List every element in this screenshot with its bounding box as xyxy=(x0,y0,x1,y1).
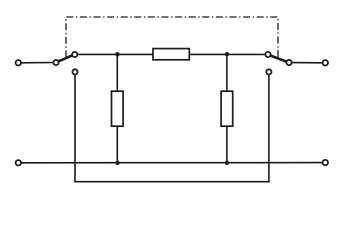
junction dot: R3 bottom node xyxy=(225,161,230,166)
switch S1 blade xyxy=(59,55,73,61)
wire: right shunt top lead xyxy=(226,54,228,91)
switch S2 lower throw contact xyxy=(266,69,271,74)
mechanical linkage dash-dot line xyxy=(66,17,278,58)
wire: S2 lower throw down lead xyxy=(268,75,270,182)
junction dot: R2 top node xyxy=(115,52,120,57)
switch S2 blade xyxy=(271,56,287,62)
terminal In+ xyxy=(16,60,21,65)
resistor R1 (series) xyxy=(153,49,189,60)
wire: lower bypass link xyxy=(74,181,270,183)
wire: left input terminal to switch S1 pole xyxy=(21,62,53,64)
switch S2 upper throw contact xyxy=(265,52,270,57)
resistor R3 (right shunt) xyxy=(221,91,233,126)
wire: S1 throw to series resistor R1 xyxy=(77,53,153,55)
wire: R1 to switch S2 throw xyxy=(189,53,265,55)
terminal Out- xyxy=(323,160,328,165)
resistor R2 (left shunt) xyxy=(112,91,124,126)
switch S1 upper throw contact xyxy=(72,52,77,57)
wire: S1 lower throw down lead xyxy=(74,75,76,182)
junction dot: R2 bottom node xyxy=(115,161,120,166)
switch S1 lower throw contact xyxy=(72,69,77,74)
wire: left shunt bottom lead xyxy=(116,126,118,163)
switch S1 pole contact xyxy=(53,60,58,65)
junction dot: R3 top node xyxy=(225,52,230,57)
wire: left shunt top lead xyxy=(116,54,118,91)
wire: right shunt bottom lead xyxy=(226,126,228,163)
switch S2 pole contact xyxy=(286,60,291,65)
terminal Out+ xyxy=(323,60,328,65)
wire: bottom rail xyxy=(21,162,323,164)
wire: S2 pole to right output terminal xyxy=(292,62,323,64)
terminal In- xyxy=(16,160,21,165)
